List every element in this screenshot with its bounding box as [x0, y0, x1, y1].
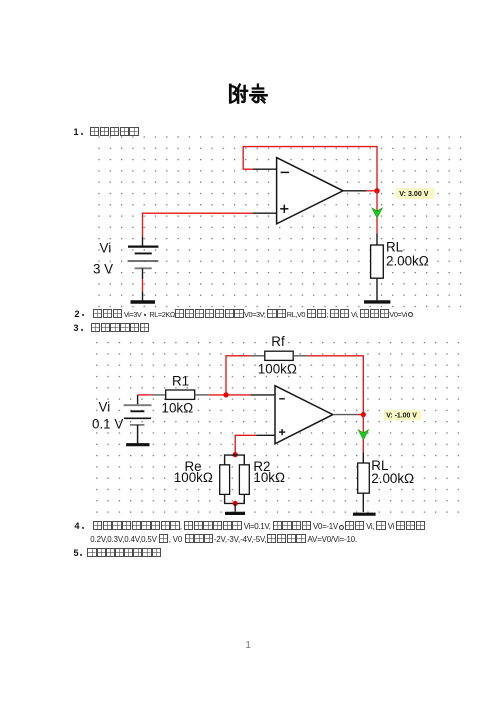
wire: feedback loop from output node to inverting input [243, 147, 377, 191]
glyph lu [257, 85, 259, 88]
wire: battery negative to ground [142, 279, 144, 291]
probe arrow (current direction) [372, 208, 383, 218]
probe arrow 2 [358, 430, 368, 440]
svg-text:V: 3.00 V: V: 3.00 V [399, 190, 428, 198]
svg-text:10kΩ: 10kΩ [162, 400, 194, 415]
battery V1 (Vi 3V) [128, 237, 159, 280]
list item 2 [75, 309, 414, 320]
list item 4 line 2 [90, 534, 357, 545]
probe label V: 3.00 V [396, 188, 435, 199]
wire: output node 2 down to probe [362, 415, 364, 453]
dotted grid background circuit 2 [93, 334, 465, 519]
wire: inverting node up to Rf left [226, 356, 251, 395]
battery V2 (Vi 0.1V) [124, 395, 152, 444]
wire: Rf right down to output node [307, 356, 363, 415]
ground (below RL2) [353, 513, 376, 516]
resistor RL (2.00k) [371, 234, 384, 297]
node: bottom junction [233, 501, 238, 506]
ground (below RL) [364, 296, 390, 302]
svg-text:Rf: Rf [271, 334, 285, 349]
title [230, 85, 266, 103]
svg-text:100kΩ: 100kΩ [258, 361, 297, 376]
svg-text:100kΩ: 100kΩ [174, 470, 213, 485]
wire: top connector Re/R2 [225, 455, 245, 465]
resistor Re (100k) [220, 465, 230, 495]
wire: Vi source to non-inverting input [143, 213, 254, 236]
svg-text:10kΩ: 10kΩ [253, 470, 285, 485]
ground (below battery V2) [126, 443, 149, 446]
wire: op-amp U2 output to node [358, 414, 364, 416]
svg-text:3 V: 3 V [93, 261, 113, 276]
list item 1 [74, 127, 139, 138]
ground (below Re/R2) [225, 503, 245, 513]
svg-text:RL: RL [386, 240, 403, 255]
node: output junction 2 [361, 412, 366, 417]
svg-text:0.1 V: 0.1 V [92, 416, 123, 431]
resistor Rf (100k) [251, 351, 307, 360]
resistor R1 (10k) [152, 390, 209, 399]
svg-text:Vi: Vi [100, 240, 112, 255]
list item 3 [74, 323, 150, 334]
svg-text:2.00kΩ: 2.00kΩ [386, 254, 429, 269]
list item 5 [74, 548, 161, 559]
wire: R1 to inverting input [209, 394, 251, 396]
ground (below battery V1) [131, 292, 156, 303]
resistor R2 (10k) [239, 465, 249, 495]
dotted grid background circuit 1 [93, 132, 465, 309]
wire: non-inverting input to Re/R2 top [235, 435, 256, 454]
op-amp U1 [253, 158, 366, 224]
page number [245, 641, 251, 651]
wire: op-amp output to node [366, 190, 377, 192]
svg-text:V: -1.00 V: V: -1.00 V [386, 413, 417, 420]
list item 4 line 1 [75, 521, 425, 532]
svg-text:R1: R1 [172, 373, 189, 388]
svg-text:2.00kΩ: 2.00kΩ [371, 471, 414, 486]
node: inverting input junction [223, 392, 228, 397]
node: non-inverting junction [233, 452, 238, 457]
glyph fu [229, 85, 232, 102]
resistor RL2 (2.00k) [358, 453, 370, 513]
op-amp U2 [251, 386, 358, 444]
wire: bottom connector Re/R2 [225, 494, 245, 503]
node: output junction [374, 188, 379, 193]
svg-text:Vi: Vi [99, 399, 111, 414]
wire: output node down to probe [376, 191, 378, 234]
wire: battery V2 to R1 [138, 394, 152, 396]
probe label V: -1.00 V [384, 410, 422, 421]
